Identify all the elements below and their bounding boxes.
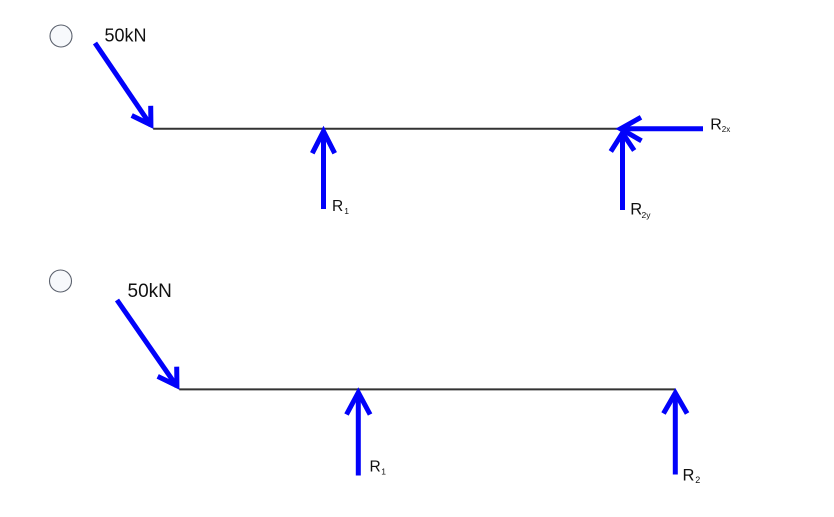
reaction arrow R2 (bottom diagram) bbox=[664, 393, 688, 475]
beam (bottom diagram) bbox=[179, 388, 675, 390]
label R1 (top diagram) bbox=[332, 198, 349, 216]
reaction arrow R2x (top diagram) bbox=[621, 117, 704, 141]
reaction arrow R1 (bottom diagram) bbox=[347, 393, 371, 476]
force arrow 50kN (bottom diagram) bbox=[117, 300, 177, 387]
svg-text:1: 1 bbox=[381, 467, 386, 477]
label R1 (bottom diagram) bbox=[370, 459, 387, 477]
reaction arrow R1 (top diagram) bbox=[312, 131, 334, 209]
svg-text:2y: 2y bbox=[642, 210, 652, 220]
svg-text:50kN: 50kN bbox=[105, 25, 147, 45]
svg-text:2x: 2x bbox=[722, 125, 730, 134]
force arrow 50kN (top diagram) bbox=[95, 43, 151, 126]
label R2x (top diagram) bbox=[710, 117, 730, 135]
svg-text:R: R bbox=[683, 466, 695, 484]
svg-text:R: R bbox=[332, 198, 343, 215]
label R2y (top diagram) bbox=[630, 201, 651, 220]
svg-text:R: R bbox=[630, 201, 642, 219]
svg-text:2: 2 bbox=[695, 475, 700, 485]
radio button option B bbox=[50, 270, 72, 292]
svg-text:1: 1 bbox=[344, 206, 349, 216]
label 50kN (bottom diagram) bbox=[128, 281, 172, 302]
svg-text:R: R bbox=[370, 459, 381, 476]
label R2 (bottom diagram) bbox=[683, 466, 701, 485]
reaction arrow R2y (top diagram) bbox=[611, 133, 634, 210]
radio button option A bbox=[50, 25, 72, 47]
svg-text:50kN: 50kN bbox=[128, 281, 172, 302]
label 50kN (top diagram) bbox=[105, 25, 147, 45]
beam (top diagram) bbox=[153, 128, 620, 130]
svg-text:R: R bbox=[710, 117, 722, 134]
